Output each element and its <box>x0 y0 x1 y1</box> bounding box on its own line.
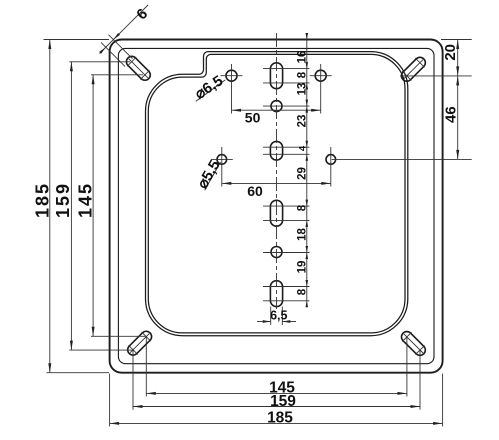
svg-text:185: 185 <box>32 182 52 218</box>
svg-text:6,5: 6,5 <box>270 309 287 323</box>
svg-text:60: 60 <box>247 183 263 199</box>
svg-text:16: 16 <box>296 51 308 64</box>
svg-text:8: 8 <box>296 204 308 211</box>
svg-text:50: 50 <box>245 110 261 126</box>
svg-text:159: 159 <box>53 182 73 218</box>
svg-text:29: 29 <box>296 167 308 180</box>
svg-text:159: 159 <box>270 393 296 410</box>
svg-text:13: 13 <box>296 83 308 96</box>
svg-text:145: 145 <box>76 182 96 218</box>
svg-text:19: 19 <box>296 261 308 274</box>
svg-text:18: 18 <box>296 228 308 241</box>
svg-text:23: 23 <box>296 115 308 128</box>
svg-text:185: 185 <box>267 410 293 427</box>
svg-text:8: 8 <box>296 71 308 78</box>
svg-text:4: 4 <box>297 145 308 151</box>
svg-text:8: 8 <box>296 288 308 295</box>
svg-text:20: 20 <box>442 44 459 61</box>
svg-text:46: 46 <box>442 106 459 123</box>
